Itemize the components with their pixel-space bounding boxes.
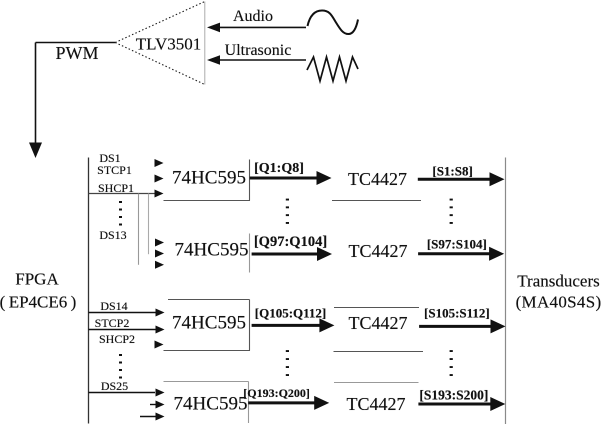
wire bus drop to second 74HC595 (inner)	[148, 194, 150, 255]
pin arrow STCP1 into U2	[155, 175, 164, 183]
net label [Q1:Q8]	[254, 162, 304, 176]
pin arrow STCP into U3	[155, 250, 164, 258]
wire [S105:S112] thick arrow U8 to transducers	[419, 319, 505, 333]
label STCP2 pin	[95, 317, 130, 329]
node ellipsis under SHCP2	[118, 352, 128, 382]
sine wave symbol (audio source)	[308, 11, 359, 35]
node ellipsis between row3 and row4 (S column)	[450, 350, 453, 376]
label SHCP1 pin	[98, 182, 134, 194]
driver U6 TC4427 box edge (row 1)	[332, 200, 421, 202]
driver U6 label TC4427	[348, 170, 407, 188]
wire STCP into U5	[150, 401, 165, 409]
wire [Q193:Q200] thick arrow U5 to U9	[248, 396, 329, 410]
wire [S193:S200] thick arrow U9 to transducers	[418, 397, 505, 411]
pin arrow SHCP into U3	[155, 261, 164, 269]
shift register U4 label 74HC595	[172, 313, 246, 332]
driver U8 label TC4427	[348, 314, 407, 332]
label DS1 pin	[99, 152, 120, 164]
shift register U3 label 74HC595	[175, 241, 249, 260]
label Transducers	[517, 272, 599, 289]
shift register U5 74HC595 box edges (row 4)	[164, 382, 249, 424]
FPGA right edge bus line	[88, 158, 90, 424]
pin arrow SHCP2 into U4	[155, 341, 164, 349]
shift register U4 74HC595 box edges (row 3)	[164, 300, 251, 351]
label transducer part number MA40S4S	[516, 294, 602, 311]
wire PWM vertical down to FPGA	[29, 43, 42, 159]
wire SHCP1 from FPGA	[89, 193, 155, 195]
wire [S1:S8] thick arrow U6 to transducers	[418, 172, 505, 186]
label TLV3501 on comparator	[136, 36, 202, 53]
node ellipsis between row1 and row2 (S column)	[450, 199, 453, 224]
wire [S97:S104] thick arrow U7 to transducers	[418, 247, 504, 261]
wire [Q97:Q104] thick arrow U3 to U7	[252, 247, 332, 261]
wire DS14 from FPGA	[89, 309, 165, 317]
pin arrow SHCP1 into U2	[155, 190, 164, 198]
wire STCP2 from FPGA	[89, 326, 165, 334]
op-amp comparator U1 TLV3501 triangle	[115, 2, 205, 85]
pin arrow DS1 into U2	[155, 159, 164, 167]
net label [Q193:Q200]	[243, 387, 310, 399]
label DS14 pin	[100, 300, 127, 312]
label SHCP2 pin	[99, 333, 135, 345]
wire Audio input arrow into comparator	[207, 23, 306, 33]
wire DS25 from FPGA	[89, 389, 165, 397]
net label [Q105:Q112]	[255, 306, 327, 319]
shift register U3 74HC595 box edge (row 2)	[249, 234, 251, 273]
label Audio net	[233, 9, 273, 25]
label DS25 pin	[101, 380, 128, 392]
label STCP1 pin	[97, 164, 132, 176]
label FPGA	[15, 271, 58, 288]
shift register U5 label 74HC595	[174, 394, 248, 413]
net label [S193:S200]	[419, 388, 488, 402]
net label [S105:S112]	[424, 306, 490, 319]
triangle wave symbol (ultrasonic source)	[307, 57, 358, 81]
wire [Q1:Q8] thick arrow U2 to U6	[250, 171, 332, 185]
wire [Q105:Q112] thick arrow U4 to U8	[252, 318, 335, 332]
net label [Q97:Q104]	[254, 235, 327, 250]
net label [S97:S104]	[427, 237, 487, 250]
label PWM net	[55, 44, 98, 62]
driver U9 TC4427 box edge (row 4)	[334, 382, 419, 384]
node ellipsis between row3 and row4 (Q column)	[286, 350, 289, 376]
label Ultrasonic net	[225, 43, 292, 59]
label DS13 pin	[99, 229, 126, 241]
net label [S1:S8]	[432, 164, 472, 177]
shift register U2 74HC595 box edges	[164, 160, 251, 201]
label FPGA part number EP4CE6	[0, 293, 76, 310]
wire bus drop to second 74HC595 (outer)	[138, 194, 140, 265]
shift register U2 label 74HC595	[172, 169, 246, 188]
Transducers bus line	[505, 158, 507, 425]
driver U8 TC4427 box edges (row 3)	[334, 308, 424, 352]
node ellipsis under SHCP1	[118, 199, 128, 229]
pin arrow DS13 into U3	[155, 239, 164, 247]
wire PWM horizontal from comparator output	[36, 42, 116, 44]
wire SHCP into U5	[140, 413, 165, 421]
node ellipsis between row1 and row2 (Q column)	[286, 199, 289, 224]
driver U9 label TC4427	[346, 395, 405, 413]
wire Ultrasonic input arrow into comparator	[207, 55, 306, 65]
driver U7 label TC4427	[348, 242, 407, 260]
